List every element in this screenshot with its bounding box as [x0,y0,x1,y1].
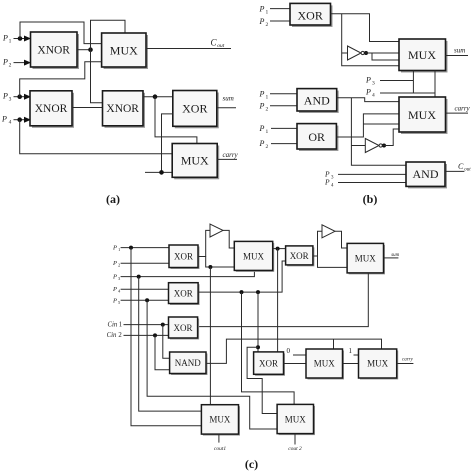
svg-text:(a): (a) [106,192,120,206]
node P2 label (XOR) [259,17,269,28]
wire buffer B2 input [318,231,323,256]
svg-text:P: P [365,88,371,97]
svg-text:(c): (c) [245,457,258,471]
svg-text:P: P [112,286,117,293]
wire select v2 from MUX M3 bottom to MUX M4 top [434,71,436,98]
wire P3 select [380,80,413,82]
wire N1 out fork to MUX sum data3 [372,53,399,60]
wire P2 input [14,62,29,64]
svg-text:5: 5 [118,300,121,305]
wire AND out down branch [351,98,406,166]
node Cin1 label [108,321,123,328]
svg-text:1: 1 [349,347,353,355]
svg-text:P: P [259,17,265,26]
node P5 label (c) [112,298,121,306]
MUX CB [359,349,399,380]
wire around XOR C4 to MUX C7 data1 [247,347,277,413]
junction XNOR U1 out [88,47,93,52]
wire P2 to XOR C1 [121,262,169,264]
wire N1 out to MUX sum data2 [364,52,399,54]
wire NAND out up and over to MUX selects [206,339,382,363]
arrow P1 into XNOR U1 [24,36,31,42]
wire P3 long line to MUX C3 select [121,270,255,276]
wire P1 to AND [270,93,297,95]
svg-text:AND: AND [413,167,439,181]
wire P2 to OR [271,143,297,145]
svg-text:P: P [259,124,265,133]
svg-text:3: 3 [372,81,375,87]
svg-text:MUX: MUX [408,48,436,62]
wire MUX C4 output sum [384,257,399,259]
node P2 label (AND) [259,102,269,113]
wire Cin1 to XOR C3 [124,324,169,326]
wire branch to MUX C7 select [242,292,295,404]
MUX C6 (cout1) [201,405,240,436]
svg-text:3: 3 [331,176,334,181]
wire P4 select [380,92,435,94]
svg-text:4: 4 [331,184,334,189]
svg-text:OR: OR [308,130,325,144]
wire XOR C1 out jog to MUX C3 data2 [198,257,234,268]
XOR G1 [290,3,333,27]
svg-text:NAND: NAND [175,358,201,368]
junction P1 (c) [129,246,133,250]
wire buffer B1 out to MUX C3 data1 [223,230,234,248]
wire P4 to AND2 [338,182,406,184]
wire AND out to MUX M4 data1 [337,98,399,102]
buffer B1 [210,224,223,237]
wire Cin1 to NAND in1 [163,325,170,359]
svg-text:3: 3 [118,276,121,281]
wire MUX CA out to MUX CB data2 [343,363,359,365]
node P2 label [2,58,12,69]
wire U1 out to MUX1 select (top) [91,20,126,49]
svg-text:MUX: MUX [181,154,209,168]
arrow P3 into XNOR U2 [24,94,31,100]
arrow P4 into XNOR U2 [24,117,31,123]
wire branch down to XOR C4 top [257,292,259,352]
wire XOR X1 input2 [162,114,173,172]
svg-text:Cin: Cin [107,332,117,339]
junction XOR C2 out b [256,290,260,294]
wire P4 input [14,119,29,121]
svg-text:2: 2 [266,144,269,150]
node P2 label (c) [112,260,120,268]
svg-text:sum: sum [223,95,234,103]
svg-text:MUX: MUX [367,359,389,369]
wire XOR C5 out jog to MUX C4 data2 [313,256,347,267]
svg-text:XOR: XOR [298,9,323,23]
svg-text:2: 2 [9,63,12,69]
wire P3 to MUX1 data2 [20,62,102,97]
svg-text:P: P [259,5,265,14]
wire buffer B2 out to MUX C4 data1 [335,231,347,248]
junction Cin1 [161,323,165,327]
svg-text:MUX: MUX [110,44,138,58]
svg-text:P: P [2,92,8,101]
svg-text:XNOR: XNOR [37,45,70,57]
svg-text:C: C [458,162,464,171]
junction P5 (c) [145,298,149,302]
wire P3 input [14,96,29,98]
XOR C3 [169,317,200,340]
wire XOR C1 out down to MUX C6 select [209,267,211,405]
MUX CA [306,349,344,380]
wire N2 out to MUX M4 data4 [382,129,399,146]
node P1 label (XOR) [259,5,269,16]
junction P3 [17,94,22,99]
inverter N1 bubble [361,51,364,54]
node P3 label (selects) [365,76,375,87]
wire P1 to XOR [270,8,290,10]
svg-text:P: P [112,274,117,281]
wire P5 to XOR C2 [121,299,169,301]
junction MUX C3 out [276,247,280,251]
junction P4 [17,117,22,122]
junction U3 out [153,94,158,99]
svg-text:2: 2 [118,332,122,339]
junction Cin2 [153,333,157,337]
svg-text:Cin: Cin [108,321,118,328]
MUX M3 (sum) [399,39,448,73]
XOR C2 [169,283,200,305]
svg-text:P: P [365,76,371,85]
junction above XOR C4 [256,345,260,349]
wire MUX2 data2 stub [145,171,172,173]
wire MUX M2 output carry [217,158,237,160]
svg-text:P: P [1,115,7,124]
wire NAND select drop to MUX CA [333,339,335,349]
node P3 label (c) [112,274,121,282]
AND G4 [406,162,447,188]
OR G3 [297,124,338,151]
AND G2 [297,89,339,113]
NAND C [170,352,208,375]
svg-text:MUX: MUX [314,359,336,369]
junction XOR C2 out a [240,290,244,294]
MUX M1 [102,33,148,69]
wire AND G4 output Cout [445,170,464,172]
wire XOR out branch down to MUX sum data4 [342,14,399,66]
XOR C5 [286,246,315,267]
svg-text:P: P [2,34,8,43]
node Cout label (b) [458,162,471,172]
wire MUX C7 output cout2 [294,434,296,445]
wire P3 to AND2 [338,173,406,175]
svg-text:1: 1 [118,247,120,252]
svg-text:(b): (b) [363,192,378,206]
wire MUX C4 select from XOR C3 out [198,273,369,327]
svg-text:out: out [464,167,471,172]
wire XNOR U3 output [143,96,173,98]
wire P1 to XOR C1 [121,247,169,249]
junction N1 out [364,51,368,55]
node P2 label (OR) [259,139,269,150]
wire XNOR U2 output to XNOR U3 [72,107,103,109]
node P4 label [1,115,12,126]
MUX C3 (sum1) [234,241,274,272]
svg-text:sum: sum [454,47,465,55]
svg-text:P: P [112,260,117,267]
wire MUX M1 output Cout [146,48,231,50]
wire P2 to AND [270,105,297,107]
junction P3 (c) [137,275,141,279]
wire 1 stub to MUX CB data1 [354,354,359,356]
wire U1 out down to XNOR U3 input1 [91,50,103,103]
svg-text:P: P [112,245,117,252]
svg-text:P: P [324,178,330,187]
svg-text:XNOR: XNOR [106,103,139,115]
node P1 label (OR) [259,124,269,135]
svg-text:2: 2 [118,263,120,268]
MUX M2 [172,144,219,180]
wire inverter N2 input stub [351,145,365,147]
wire XOR out to MUX sum data1 [331,14,400,42]
svg-text:cout1: cout1 [214,446,226,452]
svg-text:P: P [112,298,117,305]
svg-text:XOR: XOR [290,251,309,261]
wire MUX M4 output carry [446,112,469,114]
XNOR U2 [30,91,74,128]
svg-text:XOR: XOR [259,359,278,369]
junction MUX2 data2 [159,170,164,175]
inverter N2 [365,139,379,153]
junction XOR C1 out [208,265,212,269]
svg-text:0: 0 [287,347,291,355]
MUX C4 (sum2) [347,243,385,274]
wire 0 stub to MUX CA data1 [293,354,306,356]
svg-text:XNOR: XNOR [35,103,68,115]
inverter N2 bubble [379,144,382,147]
svg-text:AND: AND [304,94,330,108]
node P3 label (AND2) [324,170,334,181]
wire XNOR U1 output [77,49,91,51]
svg-text:XOR: XOR [174,252,193,262]
wire XOR X1 output sum [217,107,236,109]
svg-text:MUX: MUX [355,254,377,264]
node P4 label (selects) [365,88,375,99]
wire P2 to XOR [270,20,290,22]
XOR X1 [173,91,219,129]
MUX C7 (cout2) [277,404,315,435]
wire MUX C3 out to XOR C5 in1 [273,248,286,250]
wire P1 down to MUX C6 data2 [131,248,201,426]
node Cin2 label [107,332,123,339]
inverter N1 [348,46,362,60]
svg-text:out: out [217,43,225,49]
wire P5 down to MUX C7 data2 [147,300,277,429]
svg-text:1: 1 [266,10,269,16]
svg-text:cout 2: cout 2 [288,446,302,452]
node P1 label [2,34,12,45]
wire Cin2 to XOR C3 [124,334,169,336]
svg-text:carry: carry [455,105,471,113]
wire OR fork data3 [363,123,399,125]
svg-text:4: 4 [372,93,375,99]
wire inverter N1 input stub [342,52,348,54]
MUX M4 (carry) [399,97,448,134]
wire P1 to OR [271,127,297,129]
wire MUX CB output carry [397,363,414,365]
XOR C1 [169,245,200,269]
buffer B2 [322,225,335,238]
svg-text:XOR: XOR [174,289,193,299]
arrow P2 into XNOR U1 [24,60,31,66]
svg-text:carry: carry [223,151,239,159]
svg-text:1: 1 [266,95,269,101]
svg-text:P: P [259,139,265,148]
svg-text:2: 2 [266,22,269,28]
wire P1 input [14,38,29,40]
svg-text:1: 1 [266,129,269,135]
junction P1 [18,36,23,41]
svg-text:4: 4 [118,289,121,294]
wire U3 out to MUX2 select [155,97,197,144]
svg-text:P: P [259,102,265,111]
svg-text:MUX: MUX [209,415,231,425]
svg-text:P: P [259,90,265,99]
node Cout label [211,38,225,50]
node P1 label (AND) [259,90,269,101]
wire P3 down to MUX C6 data1 [139,277,202,412]
svg-text:MUX: MUX [243,252,265,262]
wire P4 to MUX2 data1 [20,120,173,154]
svg-text:MUX: MUX [408,108,436,122]
wire XOR C2 out to XOR C5 in2 [198,261,286,292]
svg-text:XOR: XOR [182,102,207,116]
wire OR out to MUX M4 data2 and fork data3 [336,114,399,137]
wire buffer B1 input [206,230,210,256]
wire Cin2 to NAND in2 [155,335,170,369]
wire P4 to XOR C2 [121,288,169,290]
node P4 label (c) [112,286,121,294]
node P3 label [2,92,12,103]
XOR C4 [254,352,285,376]
junction N2 out [382,144,386,148]
XNOR U3 [103,91,146,128]
svg-text:sum: sum [391,253,399,258]
wire P1 to MUX1 data1 [20,22,102,44]
svg-text:3: 3 [9,97,12,103]
svg-text:XOR: XOR [173,323,192,333]
node P1 label (c) [112,245,120,253]
svg-text:1: 1 [119,321,122,328]
wire MUX M3 output sum [446,55,469,57]
svg-text:P: P [2,58,8,67]
svg-text:4: 4 [9,120,12,126]
node P4 label (AND2) [324,178,334,189]
XNOR U1 [31,32,80,69]
wire MUX C3 out down to XOR C4 top [277,249,279,352]
svg-text:1: 1 [9,39,12,45]
wire XOR C4 out to MUX CA data2 [284,363,307,365]
svg-text:2: 2 [266,107,269,113]
wire select v1 from MUX M3 bottom [412,71,414,94]
svg-text:MUX: MUX [285,415,307,425]
svg-text:carry: carry [402,357,414,362]
wire MUX C6 output cout1 [218,434,220,443]
